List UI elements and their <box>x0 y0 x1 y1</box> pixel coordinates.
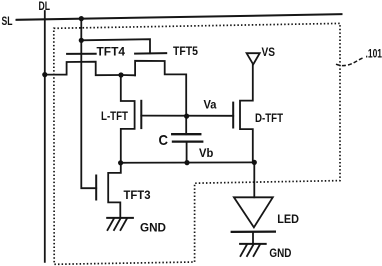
svg-text:DL: DL <box>39 0 51 13</box>
svg-text:TFT3: TFT3 <box>124 188 151 202</box>
node dot SL junction <box>79 16 84 21</box>
leader squiggle to 101 <box>336 57 365 65</box>
svg-text:D-TFT: D-TFT <box>255 111 284 125</box>
svg-text:TFT4: TFT4 <box>97 45 126 59</box>
node dot TFT4-TFT5 / L-TFT drain <box>118 72 123 77</box>
transistor D-TFT <box>232 103 234 128</box>
power VS terminal <box>247 53 260 64</box>
svg-text:GND: GND <box>140 221 166 235</box>
svg-text:GND: GND <box>269 246 291 260</box>
svg-text:SL: SL <box>2 14 13 28</box>
wire DL vertical <box>44 11 46 262</box>
ground TFT3 GND <box>107 217 133 219</box>
wire node Va <box>141 115 233 117</box>
svg-text:LED: LED <box>277 212 299 226</box>
svg-text:TFT5: TFT5 <box>173 44 198 58</box>
diode LED <box>253 162 255 197</box>
svg-text:Va: Va <box>204 98 217 112</box>
transistor L-TFT <box>140 101 142 128</box>
svg-text:Vb: Vb <box>199 146 213 160</box>
svg-text:.101: .101 <box>366 46 382 60</box>
node dot Vb right LED <box>252 160 257 165</box>
node dot Vb capacitor <box>184 160 189 165</box>
svg-text:VS: VS <box>262 45 276 59</box>
wire select vertical from SL to TFT3 gate <box>81 19 96 189</box>
node dot DL junction <box>42 72 47 77</box>
transistor TFT5 <box>135 52 166 54</box>
node dot Va <box>184 114 189 119</box>
wire branch to TFT5 gate <box>81 39 150 53</box>
node dot Vb left <box>118 160 123 165</box>
transistor TFT3 <box>95 176 97 200</box>
svg-text:C: C <box>159 132 169 149</box>
dotted box 101 <box>54 23 340 264</box>
wire TFT4 to TFT5 <box>121 74 135 76</box>
transistor TFT4 <box>67 53 96 55</box>
wire SL line <box>17 14 342 20</box>
capacitor C <box>185 116 187 134</box>
ground LED GND <box>240 243 266 245</box>
node dot TFT5 gate branch <box>79 38 84 43</box>
svg-text:L-TFT: L-TFT <box>101 109 129 123</box>
wire node Vb <box>121 161 255 163</box>
